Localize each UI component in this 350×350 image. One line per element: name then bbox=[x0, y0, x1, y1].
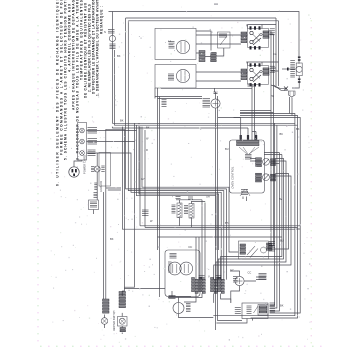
svg-text:TEMPERATURES EQUIVALENTES: TEMPERATURES EQUIVALENTES bbox=[80, 0, 84, 80]
wire bus H1 bbox=[112, 122, 295, 124]
connector P4 bbox=[192, 278, 206, 294]
wire P2 down b bbox=[291, 98, 293, 116]
wire corner 155 bbox=[155, 97, 202, 99]
svg-text:REMARQUE :: REMARQUE : bbox=[100, 5, 104, 34]
wire A1 down bbox=[268, 111, 271, 244]
P1 pin ticks bbox=[240, 135, 258, 140]
wire DSI bottom bbox=[216, 319, 252, 324]
svg-text:BK: BK bbox=[120, 119, 124, 123]
connector P9 bbox=[89, 200, 99, 210]
wire K4 out bbox=[214, 174, 291, 280]
svg-text:BK: BK bbox=[146, 126, 150, 130]
console box corner bbox=[104, 188, 122, 299]
wire K3 in bbox=[250, 159, 256, 162]
wire IG2 bbox=[121, 313, 123, 334]
svg-text:R: R bbox=[146, 148, 148, 152]
notes text block bbox=[56, 0, 104, 186]
terminal block TB1 bbox=[78, 123, 87, 161]
wire SU1 to J1 bbox=[196, 53, 211, 57]
svg-text:OVEN CONTROL: OVEN CONTROL bbox=[231, 166, 235, 188]
svg-text:R: R bbox=[246, 24, 248, 28]
terminal T1 bbox=[80, 128, 85, 133]
wire K2 cross bbox=[248, 62, 279, 66]
wire motor connector bbox=[214, 92, 218, 94]
relay K5 bbox=[238, 241, 268, 259]
svg-text:GY: GY bbox=[230, 268, 234, 272]
wire bus H2 bbox=[114, 124, 297, 126]
igniter stack IG2 bbox=[119, 292, 126, 308]
svg-text:BU: BU bbox=[225, 147, 229, 151]
relay K4 bbox=[256, 173, 276, 182]
label K1 out bbox=[270, 29, 275, 35]
lock motor M2 bbox=[168, 262, 181, 275]
label T1 bbox=[88, 128, 98, 134]
label lock bbox=[169, 296, 176, 299]
label DSI out bbox=[270, 303, 276, 312]
wire bus H5 bbox=[122, 228, 295, 230]
ground lug G1 bbox=[94, 166, 100, 172]
wire pair beside F1 bbox=[113, 50, 115, 125]
label DSI left bbox=[235, 308, 241, 314]
ground marks bbox=[94, 183, 97, 190]
splice tick bbox=[287, 68, 289, 71]
wire R2 bot bbox=[191, 218, 193, 227]
wire into P1 c bbox=[252, 132, 256, 141]
label K5 right bbox=[269, 242, 275, 252]
svg-text:BU: BU bbox=[280, 239, 284, 243]
label R2 top bbox=[188, 197, 193, 199]
wire pair 252 bbox=[248, 84, 255, 140]
svg-text:POWER CORD: POWER CORD bbox=[83, 155, 87, 174]
wire P5 bot bbox=[214, 294, 231, 303]
wire fan bbox=[230, 271, 256, 303]
bake element R2 bbox=[189, 204, 194, 219]
wire bus R3 bbox=[234, 118, 301, 314]
wire SU2 to K2 bbox=[196, 72, 248, 81]
terminal T3 bbox=[80, 151, 85, 156]
wire K3 out bbox=[216, 159, 286, 280]
oven lamp L3 bbox=[173, 303, 184, 314]
svg-text:2. NE REMPLACER LES FILS QU'AV: 2. NE REMPLACER LES FILS QU'AVEC DES FIL… bbox=[88, 4, 92, 92]
spark module bbox=[258, 305, 268, 316]
wire R2 top bbox=[192, 201, 206, 280]
wire A2 down bbox=[268, 113, 273, 247]
relay K1 bbox=[241, 26, 269, 49]
wire A3 down bbox=[270, 123, 275, 305]
wire T1 white bbox=[87, 131, 217, 251]
wire bundle b1 bbox=[142, 127, 238, 252]
svg-text:CA: CA bbox=[273, 52, 277, 56]
wire T2 black bbox=[87, 142, 135, 288]
svg-text:OR: OR bbox=[296, 227, 300, 231]
connector P1 row bbox=[237, 141, 260, 146]
relay K3 bbox=[256, 158, 276, 167]
label P5 bbox=[216, 276, 222, 279]
wire into P1 a bbox=[218, 118, 241, 141]
wire IG1 bbox=[104, 315, 106, 329]
wire code labels bbox=[104, 24, 300, 308]
label T3 bbox=[88, 150, 96, 156]
wire bus H6 bbox=[158, 236, 282, 238]
wire fan label bbox=[256, 277, 266, 280]
label T2 bbox=[88, 139, 98, 145]
wire corner c1 bbox=[135, 123, 137, 141]
svg-text:1. DEBRANCHER L'APPAREIL DU SE: 1. DEBRANCHER L'APPAREIL DU SECTEUR AVAN… bbox=[96, 0, 100, 96]
fan motor M3 bbox=[235, 276, 244, 285]
label R1 top bbox=[176, 197, 181, 199]
svg-text:GY: GY bbox=[141, 177, 145, 181]
wire light to bus bbox=[292, 76, 299, 88]
door lock box bbox=[165, 250, 200, 297]
svg-text:V: V bbox=[208, 275, 210, 279]
wire P3 down bbox=[243, 197, 247, 202]
wire ground bbox=[96, 153, 98, 200]
relay K2 bbox=[241, 63, 269, 86]
wire K1 out a bbox=[240, 31, 271, 111]
connector P5 bbox=[211, 278, 225, 294]
connector stack J2 bbox=[211, 52, 217, 61]
svg-text:APRES CHAQUE INTERVENTION DE D: APRES CHAQUE INTERVENTION DE DEPANNAGE bbox=[72, 0, 76, 110]
switch box S1 bbox=[218, 32, 231, 48]
label fan2 bbox=[233, 277, 238, 283]
svg-text:D'EFFECTUER LE DEPANNAGE ET LA: D'EFFECTUER LE DEPANNAGE ET LA REPARATIO… bbox=[92, 0, 96, 94]
wire IG2 branch bbox=[124, 288, 165, 290]
wire R1 bot bbox=[179, 218, 181, 226]
wire bus mid2 bbox=[122, 129, 124, 296]
svg-text:CC: CC bbox=[248, 271, 252, 275]
DSI module bbox=[242, 303, 268, 319]
console box corner b bbox=[106, 129, 124, 188]
wire T3 red bbox=[87, 153, 222, 280]
wire A5 down bbox=[270, 153, 280, 312]
svg-text:R: R bbox=[246, 61, 248, 65]
wire N supply bbox=[126, 18, 276, 280]
wire R1 top bbox=[176, 200, 202, 280]
wire K2 out a bbox=[271, 18, 276, 88]
svg-text:6. UTILISER SEULEMENT DES PIEC: 6. UTILISER SEULEMENT DES PIECES DE RECH… bbox=[56, 0, 60, 186]
control board U1 bbox=[230, 140, 265, 193]
svg-text:DC: DC bbox=[189, 245, 193, 249]
wire board out right bbox=[264, 153, 282, 155]
connector P3 bbox=[241, 190, 248, 195]
wire K2 out b bbox=[271, 21, 279, 86]
label mid wires bbox=[142, 210, 149, 216]
convection motor M1 bbox=[211, 99, 220, 108]
svg-text:DE CALIBRE IDENTIQUE ET RESIST: DE CALIBRE IDENTIQUE ET RESISTANT AUX bbox=[84, 2, 88, 98]
wire P9 down bbox=[93, 210, 95, 215]
wire from F1 down bbox=[111, 12, 113, 124]
svg-text:BK: BK bbox=[296, 127, 300, 131]
surface element SU1 bbox=[176, 40, 189, 53]
surface element SU2 bbox=[176, 69, 189, 82]
svg-text:BK: BK bbox=[110, 237, 114, 241]
surface unit box SU2 bbox=[155, 65, 196, 89]
igniter stack IG1 bbox=[103, 299, 110, 313]
wire A4 down bbox=[270, 125, 277, 308]
svg-text:5. SCHEMA ILLUSTRE TOUS LES CI: 5. SCHEMA ILLUSTRE TOUS LES CIRCUITS HOR… bbox=[64, 0, 68, 160]
wire L1 supply top bbox=[109, 12, 300, 64]
label fan bbox=[259, 274, 267, 280]
svg-text:BK: BK bbox=[117, 54, 121, 58]
wire bus H3 bbox=[140, 127, 300, 226]
wire K1 out b bbox=[240, 34, 274, 113]
broil element R1 bbox=[177, 203, 182, 218]
oven light L4 bbox=[296, 63, 302, 76]
label motor M1 bbox=[203, 99, 211, 108]
label K2 out bbox=[270, 66, 275, 72]
wire K2 to P2 bbox=[271, 85, 287, 90]
wire motor feed bbox=[161, 88, 252, 99]
svg-text:GROUND: GROUND bbox=[100, 181, 103, 192]
svg-text:N: N bbox=[104, 30, 106, 34]
wire plug to TB1 bbox=[74, 160, 82, 167]
connector stack J1 bbox=[199, 51, 205, 62]
fuse F1 bbox=[109, 35, 115, 41]
light pin ticks bbox=[298, 57, 301, 58]
terminal T2 bbox=[80, 139, 85, 144]
switch contact X1 bbox=[284, 87, 288, 91]
registration tick bbox=[214, 4, 218, 5]
wire P4 bot bbox=[168, 294, 202, 303]
wire J2 to S1 bbox=[216, 48, 224, 56]
wire box left pair bbox=[155, 88, 160, 297]
svg-text:IGNITER SWITCH: IGNITER SWITCH bbox=[114, 310, 116, 331]
label P4 bbox=[199, 276, 205, 279]
wire mid 139 bbox=[139, 123, 219, 250]
svg-text:FERMEE COMMANDES A L'ARRET ET: FERMEE COMMANDES A L'ARRET ET SELECTEUR … bbox=[60, 0, 64, 155]
wire SU outer lid bbox=[196, 31, 211, 51]
label BR bbox=[162, 100, 167, 107]
wire bus R2 bbox=[240, 116, 298, 319]
wire light feed bbox=[282, 68, 296, 70]
wire P4 feeds bbox=[196, 237, 199, 280]
wire L3 wires bbox=[179, 297, 214, 318]
wire P2 down a bbox=[289, 97, 291, 114]
surface unit box SU1 bbox=[155, 28, 196, 59]
wire L2 supply bbox=[128, 21, 278, 280]
connector P2 bbox=[289, 91, 296, 97]
wire into P1 b bbox=[112, 127, 248, 140]
wire K1 cross bbox=[248, 25, 277, 29]
junction box bbox=[99, 153, 111, 187]
wire lock bottom bbox=[169, 291, 192, 297]
wire motor down bbox=[216, 96, 218, 330]
wire bus H4 bbox=[145, 130, 298, 227]
svg-text:BK: BK bbox=[280, 132, 284, 136]
wire SU1 to K1 bbox=[196, 35, 248, 44]
svg-text:OR: OR bbox=[206, 195, 210, 199]
svg-text:BK: BK bbox=[280, 304, 284, 308]
wire bus mid bbox=[121, 127, 123, 230]
wire bus R1 bbox=[213, 114, 295, 316]
power cord plug bbox=[69, 167, 79, 177]
wire A6 down bbox=[221, 155, 282, 280]
